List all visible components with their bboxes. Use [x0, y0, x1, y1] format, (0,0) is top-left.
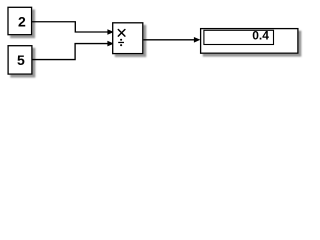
- svg-text:0.4: 0.4: [252, 29, 269, 43]
- svg-text:5: 5: [17, 52, 25, 68]
- divide block: [113, 23, 143, 54]
- multiply symbol: [118, 30, 125, 37]
- svg-text:2: 2: [18, 13, 26, 29]
- arrowhead port 1: [107, 29, 114, 35]
- arrowhead display port: [194, 37, 201, 43]
- wire divide to display: [143, 39, 194, 41]
- arrowhead port 2: [107, 41, 114, 47]
- wire constant2 to divide input 1: [32, 22, 108, 32]
- constant block value 5: [8, 46, 32, 74]
- constant block value 2: [8, 7, 32, 34]
- wire constant5 to divide input 2: [32, 44, 108, 60]
- display block: [201, 29, 298, 54]
- display inner value box: [204, 30, 274, 44]
- divide symbol: [118, 39, 124, 47]
